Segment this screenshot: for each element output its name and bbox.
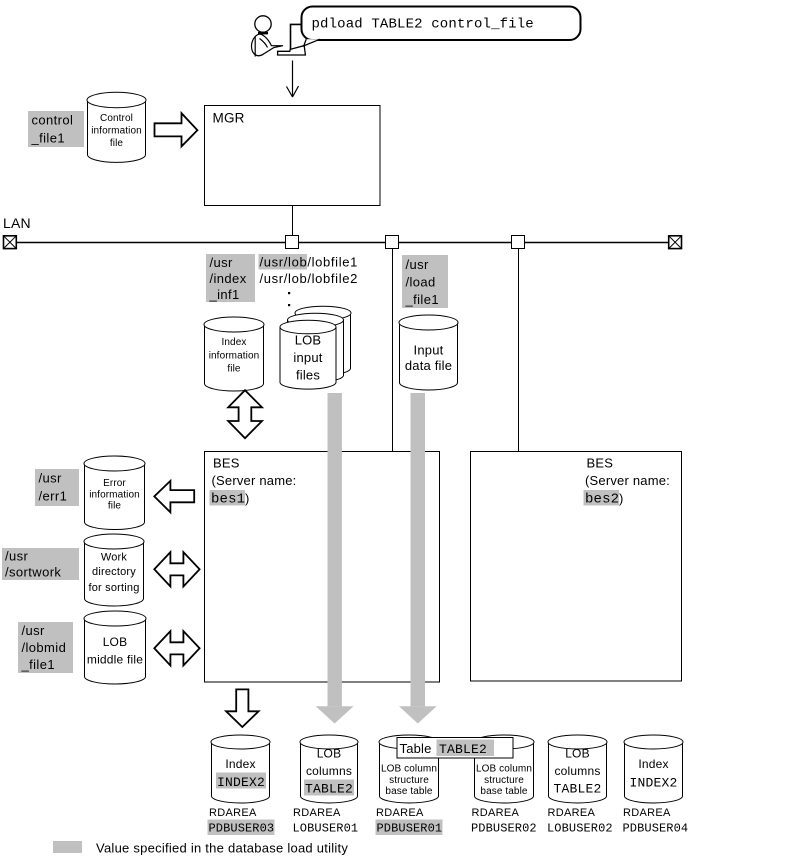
svg-text:PDBUSER03: PDBUSER03 xyxy=(209,822,275,836)
wire MGR to LAN xyxy=(292,206,294,237)
svg-text:LOB: LOB xyxy=(295,333,322,348)
error information file cylinder xyxy=(84,456,145,530)
svg-text:Table: Table xyxy=(400,741,432,756)
svg-text:/err1: /err1 xyxy=(39,489,68,504)
svg-text:files: files xyxy=(296,368,320,383)
svg-text:): ) xyxy=(245,491,250,506)
svg-text:file: file xyxy=(227,364,241,375)
svg-text:PDBUSER02: PDBUSER02 xyxy=(471,822,537,836)
svg-text:/usr: /usr xyxy=(39,471,63,486)
svg-text:/usr: /usr xyxy=(406,257,430,272)
svg-text:PDBUSER04: PDBUSER04 xyxy=(623,822,689,836)
svg-text:/load: /load xyxy=(406,275,436,290)
svg-text:control: control xyxy=(32,113,74,128)
BES1 server box xyxy=(205,452,440,683)
LAN bus wire xyxy=(16,242,670,244)
svg-text:Work: Work xyxy=(101,552,128,564)
svg-text:(Server name:: (Server name: xyxy=(212,473,297,488)
MGR server box xyxy=(205,106,381,206)
LAN terminator right xyxy=(669,236,682,249)
svg-text:BES: BES xyxy=(587,456,614,471)
RDAREA cylinder index PDBUSER03 xyxy=(211,735,270,803)
svg-text:middle file: middle file xyxy=(87,653,143,667)
svg-text:structure: structure xyxy=(389,775,429,786)
svg-text:pdload TABLE2 control_file: pdload TABLE2 control_file xyxy=(312,17,534,33)
RDAREA label 1 xyxy=(208,807,275,836)
LOB middle file cylinder xyxy=(84,611,146,684)
svg-text:input: input xyxy=(293,350,322,365)
svg-text:base table: base table xyxy=(385,786,432,797)
svg-text:/usr/lob/lobfile1: /usr/lob/lobfile1 xyxy=(260,255,359,270)
LOB input files stacked cylinders xyxy=(280,306,351,389)
label /usr/sortwork xyxy=(2,548,79,580)
svg-text:/usr: /usr xyxy=(210,255,234,270)
label control_file1 xyxy=(28,111,84,147)
speech bubble with command xyxy=(302,7,581,46)
label /usr/load_file1 xyxy=(402,255,448,308)
svg-text:data file: data file xyxy=(405,358,452,373)
RDAREA cylinder LOB columns LOBUSER01 xyxy=(300,735,358,803)
LAN node for MGR xyxy=(286,236,299,249)
table name box Table TABLE2 xyxy=(397,738,513,759)
svg-text:file: file xyxy=(108,501,122,512)
svg-text:/index: /index xyxy=(210,271,247,286)
RDAREA label 2 xyxy=(293,807,359,836)
svg-text:directory: directory xyxy=(92,566,136,578)
svg-text:TABLE2: TABLE2 xyxy=(553,782,601,797)
control information file cylinder xyxy=(87,92,146,162)
svg-text:for sorting: for sorting xyxy=(88,582,139,594)
work directory for sorting cylinder xyxy=(84,534,144,606)
label /usr/index_inf1 xyxy=(206,254,255,302)
svg-text:/lobmid: /lobmid xyxy=(22,640,67,655)
svg-text:/sortwork: /sortwork xyxy=(5,565,61,580)
RDAREA label 5 xyxy=(547,807,613,836)
RDAREA cylinder base table PDBUSER02 xyxy=(474,735,534,803)
svg-text:LOB: LOB xyxy=(103,635,128,649)
gray data-flow arrow LOB input files to LOB columns xyxy=(316,393,354,724)
svg-text:information: information xyxy=(89,490,140,501)
svg-text:Error: Error xyxy=(103,478,126,489)
RDAREA cylinder base table PDBUSER01 xyxy=(379,735,439,803)
svg-text:bes2: bes2 xyxy=(585,492,619,508)
svg-text:LOBUSER02: LOBUSER02 xyxy=(547,822,613,836)
label /usr/lob/lobfile1 lobfile2 xyxy=(259,254,359,306)
person operator icon xyxy=(252,16,283,57)
svg-text:_file1: _file1 xyxy=(405,292,439,307)
LAN node for BES2 xyxy=(512,236,525,249)
svg-text:(Server name:: (Server name: xyxy=(585,473,670,488)
outline down arrow BES1 to index RDAREA xyxy=(226,689,259,727)
svg-text:Index: Index xyxy=(225,757,255,771)
svg-text:bes1: bes1 xyxy=(211,492,245,508)
svg-text:PDBUSER01: PDBUSER01 xyxy=(377,822,443,836)
LAN node for BES1 xyxy=(386,236,399,249)
svg-text:Input: Input xyxy=(414,343,444,358)
svg-text:RDAREA: RDAREA xyxy=(548,807,596,819)
svg-text:Control: Control xyxy=(100,113,133,124)
input data file cylinder xyxy=(399,315,458,390)
svg-text:INDEX2: INDEX2 xyxy=(217,775,265,790)
label /usr/err1 xyxy=(35,469,79,506)
wire LAN to BES1 xyxy=(392,249,394,452)
LAN terminator left xyxy=(4,236,17,249)
fat double arrow BES1 work directory xyxy=(154,552,199,586)
svg-text:RDAREA: RDAREA xyxy=(376,807,424,819)
svg-text:base table: base table xyxy=(480,786,527,797)
svg-text:/usr: /usr xyxy=(5,549,29,564)
svg-text:_file1: _file1 xyxy=(21,657,55,672)
arrow from operator to MGR xyxy=(287,61,299,98)
fat arrow BES1 to error file xyxy=(154,481,194,512)
svg-text:RDAREA: RDAREA xyxy=(209,807,257,819)
double vertical arrow index file to BES1 xyxy=(228,390,262,438)
RDAREA label 4 xyxy=(471,807,537,836)
svg-text:information: information xyxy=(209,351,260,362)
BES2 server box xyxy=(471,452,682,682)
svg-text:file: file xyxy=(110,138,124,149)
gray data-flow arrow input data file to table xyxy=(399,393,437,724)
fat arrow control file to MGR xyxy=(155,113,198,146)
svg-text:LOB column: LOB column xyxy=(381,764,437,775)
wire LAN to BES2 xyxy=(518,249,520,452)
label /usr/lobmid_file1 xyxy=(18,622,73,673)
RDAREA cylinder index PDBUSER04 xyxy=(624,735,683,803)
svg-text:LOB: LOB xyxy=(565,747,590,761)
RDAREA label 6 xyxy=(623,807,689,836)
svg-text:LAN: LAN xyxy=(3,215,31,231)
svg-text:Value specified in the databas: Value specified in the database load uti… xyxy=(96,841,348,856)
PART: legend xyxy=(53,841,348,856)
svg-text:columns: columns xyxy=(554,764,600,778)
svg-text:LOB column: LOB column xyxy=(476,764,532,775)
svg-text:RDAREA: RDAREA xyxy=(623,807,671,819)
svg-text:RDAREA: RDAREA xyxy=(293,807,341,819)
RDAREA cylinder LOB columns LOBUSER02 xyxy=(548,735,607,803)
svg-text:LOB: LOB xyxy=(317,747,342,761)
svg-text:RDAREA: RDAREA xyxy=(472,807,520,819)
svg-text:_inf1: _inf1 xyxy=(209,287,240,302)
svg-text:TABLE2: TABLE2 xyxy=(305,782,353,797)
svg-text:BES: BES xyxy=(213,456,240,471)
svg-text:INDEX2: INDEX2 xyxy=(629,776,677,791)
svg-text:Index: Index xyxy=(638,757,668,771)
svg-text:columns: columns xyxy=(306,764,352,778)
terminal icon xyxy=(278,24,306,55)
svg-text:MGR: MGR xyxy=(213,111,245,126)
svg-text:/usr/lob/lobfile2: /usr/lob/lobfile2 xyxy=(260,271,359,286)
svg-text:information: information xyxy=(91,126,142,137)
svg-text:/usr: /usr xyxy=(22,623,46,638)
svg-text:LOBUSER01: LOBUSER01 xyxy=(293,822,359,836)
index information file cylinder xyxy=(204,317,264,391)
RDAREA label 3 xyxy=(376,807,443,836)
fat double arrow BES1 LOB middle file xyxy=(154,631,199,665)
svg-text:_file1: _file1 xyxy=(31,131,65,146)
svg-text:TABLE2: TABLE2 xyxy=(439,742,487,757)
svg-text:structure: structure xyxy=(484,775,524,786)
svg-text:): ) xyxy=(619,491,624,506)
svg-text:Index: Index xyxy=(222,337,247,348)
